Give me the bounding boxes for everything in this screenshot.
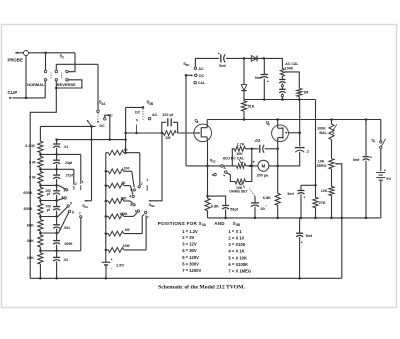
wire diode to AC CAL	[264, 58, 283, 68]
svg-text:6.8K: 6.8K	[263, 196, 271, 200]
S2C contact	[221, 165, 224, 168]
S2D contact AC	[194, 67, 197, 70]
resistor 27K	[313, 197, 318, 207]
wire probe to S1 top	[29, 52, 76, 54]
svg-text:REVERSE: REVERSE	[57, 82, 76, 87]
svg-text:1: 1	[62, 56, 64, 60]
svg-text:.01: .01	[63, 145, 68, 149]
wire clip to S1 contact	[44, 81, 46, 98]
wire Q1 source	[207, 141, 209, 198]
transistor Q2	[272, 125, 289, 142]
wire S2D AC up	[195, 58, 219, 67]
svg-text:27pf: 27pf	[66, 174, 74, 178]
wire cap tee	[301, 184, 316, 186]
svg-text:6 = 300V: 6 = 300V	[182, 262, 199, 267]
wire Q2 source	[277, 142, 279, 194]
svg-text:.002: .002	[63, 226, 70, 230]
svg-text:23pf: 23pf	[65, 161, 73, 165]
svg-text:5mf: 5mf	[306, 234, 313, 238]
wire source rail	[208, 217, 381, 219]
svg-text:DC: DC	[199, 74, 205, 78]
resistor 10 ohms ladder	[106, 152, 109, 154]
wire AC bus	[57, 139, 126, 141]
svg-text:1: 1	[82, 180, 84, 184]
svg-text:Schematic of the Model 212 TVO: Schematic of the Model 212 TVOM.	[158, 285, 245, 291]
svg-text:CLIP: CLIP	[8, 90, 18, 95]
wire Q1 drain	[206, 120, 208, 125]
wire row to pot	[223, 165, 236, 167]
svg-text:2A: 2A	[101, 102, 106, 106]
svg-text:1 = 1.2V: 1 = 1.2V	[182, 229, 198, 234]
diode D1	[244, 57, 264, 59]
resistor 1M accal	[297, 88, 302, 96]
svg-text:10: 10	[124, 148, 128, 152]
S2B pole arrow	[136, 125, 138, 134]
svg-text:7: 7	[79, 212, 81, 216]
svg-text:4 = 30V: 4 = 30V	[182, 248, 197, 253]
svg-text:6: 6	[72, 210, 74, 214]
wire S3B bus	[105, 153, 107, 257]
svg-text:CAL: CAL	[198, 81, 205, 85]
svg-text:200 μa: 200 μa	[257, 173, 270, 177]
wire AC CAL wiper	[285, 72, 300, 88]
resistor 6.8K right	[275, 193, 280, 205]
wire probe junction to S1 contact	[45, 53, 47, 70]
wire S1 to S2A	[97, 64, 99, 109]
svg-text:4: 4	[61, 196, 63, 200]
svg-text:POSITIONS FOR: POSITIONS FOR	[158, 221, 198, 226]
wire S2A pole down to S3A pole	[91, 126, 93, 200]
svg-text:6: 6	[135, 210, 137, 214]
svg-text:ADJ DC CAL: ADJ DC CAL	[223, 156, 245, 160]
svg-text:3 = 12V: 3 = 12V	[182, 241, 197, 246]
S2B contact AC	[148, 117, 151, 120]
svg-text:120 pf: 120 pf	[162, 113, 174, 117]
svg-text:1 = X 1: 1 = X 1	[228, 229, 242, 234]
capacitor 5mf bias	[300, 185, 302, 190]
svg-text:2B: 2B	[149, 102, 154, 106]
svg-text:5 = X 10K: 5 = X 10K	[228, 255, 247, 260]
transistor Q1	[194, 124, 212, 142]
wire rectifier rail	[244, 99, 316, 101]
switch S4	[380, 120, 382, 141]
resistor 22K	[331, 169, 333, 186]
resistor 10M ohms ladder	[106, 249, 109, 251]
wire drain rail	[207, 119, 381, 121]
svg-text:51K: 51K	[248, 105, 255, 109]
svg-text:5: 5	[130, 203, 132, 207]
svg-text:10M: 10M	[123, 244, 130, 248]
svg-text:3: 3	[130, 188, 132, 192]
svg-text:2.2 M: 2.2 M	[25, 144, 35, 148]
resistor 100K ohms ladder	[106, 215, 109, 217]
svg-text:30K: 30K	[27, 239, 34, 243]
capacitor 23pf divider	[56, 154, 58, 160]
switch S1 contacts	[44, 70, 47, 73]
svg-text:100K: 100K	[317, 127, 326, 131]
svg-text:ZERO: ZERO	[316, 164, 326, 168]
svg-text:3 = X100: 3 = X100	[228, 242, 245, 247]
capacitor .01 bridge	[252, 148, 259, 150]
wire 27K vertical	[315, 100, 317, 198]
switch S2B dashed	[142, 109, 144, 121]
wire S2B top	[126, 106, 143, 108]
svg-text:4: 4	[129, 195, 131, 199]
svg-text:10K: 10K	[27, 256, 34, 260]
resistor 1M grid	[163, 131, 176, 136]
capacitor 5mf output	[299, 218, 301, 233]
svg-text:2 = X 10: 2 = X 10	[228, 236, 244, 241]
svg-text:22K: 22K	[321, 189, 328, 193]
wire divider to S2A (DC rail)	[40, 125, 95, 127]
svg-text:6.8K: 6.8K	[211, 205, 219, 209]
capacitor 30 ohms	[249, 188, 255, 196]
svg-text:NORMAL: NORMAL	[27, 82, 45, 87]
svg-text:300K: 300K	[23, 207, 32, 211]
svg-text:DC: DC	[99, 124, 105, 128]
svg-text:.01: .01	[254, 138, 261, 143]
svg-text:.02: .02	[63, 258, 68, 262]
resistor 100 ohms ladder	[106, 170, 109, 172]
S3A pole lead	[85, 200, 92, 202]
svg-text:AC: AC	[152, 113, 158, 117]
svg-text:7 = X 1MEG: 7 = X 1MEG	[228, 268, 251, 273]
S2C ohms contacts	[225, 171, 228, 174]
svg-text:2.7K: 2.7K	[237, 143, 245, 147]
capacitor .1 gate	[295, 147, 305, 149]
wire meter to Q2 source	[269, 165, 300, 167]
svg-text:56pf: 56pf	[230, 207, 238, 211]
potentiometer AC CAL 100K	[280, 68, 284, 76]
capacitor .01 divider	[56, 140, 58, 144]
svg-text:1.5V: 1.5V	[116, 262, 124, 267]
svg-text:3A: 3A	[85, 205, 89, 209]
resistor 2.7K	[232, 149, 234, 166]
wire S2B vertical to ohms ladder	[125, 107, 127, 152]
wire S2D pole down to S2C	[185, 75, 187, 166]
capacitor 27pf divider	[56, 169, 58, 175]
potentiometer 10K OHMS SET	[227, 173, 235, 182]
S2D pole DC	[185, 74, 188, 77]
resistor 51K	[241, 101, 246, 111]
svg-text:6 = X100K: 6 = X100K	[228, 262, 248, 267]
capacitor 56pf	[208, 196, 226, 205]
capacitor .02 divider	[56, 251, 58, 257]
svg-text:27K: 27K	[319, 201, 326, 205]
svg-text:6 M: 6 M	[29, 160, 35, 164]
svg-text:AND: AND	[214, 221, 225, 226]
svg-text:2: 2	[75, 182, 77, 186]
svg-text:+: +	[370, 155, 372, 159]
svg-text:+: +	[384, 168, 386, 172]
wire reverse loop	[56, 80, 82, 88]
wire S1 to ground bus	[30, 81, 56, 278]
wire bal to zero	[331, 140, 333, 159]
resistor divider chain	[39, 126, 41, 141]
resistor 1M ohms ladder	[106, 233, 109, 235]
svg-text:10K: 10K	[318, 160, 325, 164]
capacitor 5mf supply	[365, 120, 367, 157]
svg-text:4 = X 1K: 4 = X 1K	[228, 248, 244, 253]
wire box to Q1	[178, 132, 194, 134]
resistor 1K ohms ladder	[106, 185, 109, 187]
diode D2	[243, 58, 245, 84]
clip terminal arrow	[9, 97, 12, 99]
svg-text:.0099: .0099	[64, 242, 73, 246]
probe terminal arrow	[15, 52, 18, 54]
svg-text:100: 100	[124, 167, 130, 171]
svg-text:3A: 3A	[202, 223, 207, 227]
S2A contact AC	[104, 118, 107, 121]
potentiometer 10K DC CAL	[236, 164, 245, 169]
svg-text:OHMS SET: OHMS SET	[229, 190, 248, 194]
wire Q2 drain	[277, 120, 279, 126]
svg-text:1K: 1K	[121, 181, 126, 185]
svg-text:5mf: 5mf	[353, 158, 360, 162]
meter M	[258, 160, 269, 171]
wire pot to meter node	[246, 165, 251, 167]
svg-text:5mf: 5mf	[287, 192, 294, 196]
wire S2C row	[186, 165, 221, 167]
svg-text:5 = 120V: 5 = 120V	[182, 255, 199, 260]
svg-text:2D: 2D	[186, 63, 190, 67]
svg-text:5mf: 5mf	[219, 64, 226, 68]
potentiometer 10K ZERO	[329, 159, 334, 169]
capacitor 120pf	[162, 122, 167, 133]
svg-text:3B: 3B	[236, 223, 241, 227]
svg-text:+: +	[301, 241, 303, 245]
svg-text:100K: 100K	[119, 212, 128, 216]
svg-text:2 = 3V: 2 = 3V	[182, 235, 194, 240]
svg-text:7 = 1200V: 7 = 1200V	[182, 268, 201, 273]
svg-text:1M: 1M	[125, 228, 130, 232]
rotary switch S3A contacts	[80, 154, 82, 183]
rotary switch S3B contacts	[138, 186, 140, 188]
capacitor 700pf divider	[56, 201, 58, 207]
svg-text:7: 7	[147, 215, 149, 219]
capacitor 5mf filter	[263, 58, 265, 74]
wire zero wiper	[335, 164, 342, 278]
svg-text:1M: 1M	[165, 136, 170, 140]
divider tap wires	[40, 153, 80, 155]
svg-text:M: M	[261, 164, 265, 169]
svg-text:3 M: 3 M	[29, 176, 35, 180]
svg-text:3: 3	[63, 189, 65, 193]
switch S2A dashed	[97, 111, 99, 123]
S2A pole arrow	[88, 121, 92, 127]
svg-text:100K: 100K	[285, 66, 294, 70]
svg-text:1: 1	[146, 178, 148, 182]
svg-text:+: +	[111, 258, 113, 262]
resistor 10K ohms ladder	[106, 200, 109, 202]
wire S1 middle contact to S2A	[56, 64, 98, 70]
S1 gang dashed link	[50, 73, 52, 79]
wire S3B range feed	[149, 133, 162, 201]
capacitor .0099 divider	[56, 233, 58, 240]
S2D contact CAL	[194, 81, 197, 84]
svg-text:DC: DC	[135, 110, 141, 114]
svg-text:10K: 10K	[120, 197, 127, 201]
svg-text:AC: AC	[198, 67, 204, 71]
svg-text:1M: 1M	[303, 91, 308, 95]
wire probe down to clip node	[25, 56, 27, 98]
S2C pole arrow	[223, 167, 226, 169]
svg-text:+: +	[303, 196, 305, 200]
svg-text:60K: 60K	[27, 223, 34, 227]
svg-text:3B: 3B	[151, 204, 155, 208]
svg-text:PROBE: PROBE	[8, 58, 23, 63]
wire S1 right drop	[68, 53, 75, 72]
probe terminal	[24, 51, 29, 56]
svg-text:2: 2	[141, 182, 143, 186]
capacitor pair below AC CAL	[281, 76, 283, 79]
S3B contact leads	[139, 153, 141, 186]
wire gate cap to source row	[299, 152, 301, 167]
wire rail to Q1 gate	[126, 132, 162, 134]
potentiometer 100K BAL	[331, 120, 333, 125]
capacitor 200pf divider	[56, 185, 58, 190]
svg-text:5mf: 5mf	[255, 76, 262, 80]
svg-text:BAL.: BAL.	[319, 131, 327, 135]
wire ground rail	[30, 277, 342, 279]
wire Q2 gate vertical	[299, 100, 301, 147]
resistor 6.8K left	[205, 198, 210, 210]
svg-text:600K: 600K	[23, 191, 32, 195]
svg-text:9V: 9V	[386, 176, 391, 181]
capacitor .002 divider	[56, 217, 58, 225]
svg-text:5: 5	[70, 201, 72, 205]
